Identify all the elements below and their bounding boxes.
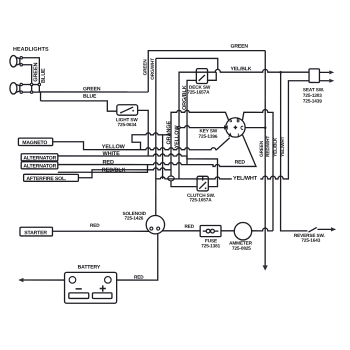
label GREEN vertical right bbox=[259, 140, 264, 157]
wire YEL/BLK rail to seat switch bbox=[215, 69, 309, 72]
wire BLUE run to light switch bbox=[41, 101, 117, 111]
label GREEN top rail bbox=[231, 44, 249, 50]
svg-text:GREEN: GREEN bbox=[259, 140, 264, 157]
wire light switch output to white wire bbox=[138, 110, 149, 156]
svg-text:GREEN: GREEN bbox=[83, 86, 101, 92]
label MAGNETO bbox=[22, 140, 47, 146]
battery box bbox=[65, 272, 117, 303]
label 725-0634 bbox=[118, 122, 137, 127]
label ALTERNATOR 1 bbox=[23, 156, 56, 162]
label YEL/WHT on wire bbox=[232, 174, 261, 182]
wire YELLOW from magneto to key A bbox=[53, 138, 230, 150]
label KEY SW bbox=[200, 128, 218, 133]
label 725-1381 bbox=[201, 243, 220, 248]
headlight lamp 2 bbox=[10, 83, 23, 94]
svg-text:YEL/WHT: YEL/WHT bbox=[233, 176, 258, 182]
wire lamp2 green terminal bbox=[23, 84, 40, 86]
deck switch DECK SW 725-1657A bbox=[196, 69, 207, 84]
label HEADLIGHTS bbox=[13, 47, 49, 53]
label WHITE bbox=[103, 151, 121, 157]
svg-text:YELLOW: YELLOW bbox=[102, 144, 126, 150]
label AMMETER bbox=[229, 241, 253, 246]
svg-text:725-1643: 725-1643 bbox=[301, 238, 320, 243]
seat switch SEAT SW 725-1303 725-1439 bbox=[309, 69, 334, 83]
label ORG/BLK vertical bbox=[182, 85, 188, 110]
wire deck switch left to key M vertical bbox=[179, 72, 216, 179]
svg-text:ORG/BLK: ORG/BLK bbox=[182, 85, 188, 110]
svg-text:GREEN: GREEN bbox=[33, 63, 39, 82]
label RED starter bbox=[90, 223, 100, 228]
battery negative terminal bbox=[69, 277, 76, 284]
alternator box 2 bbox=[21, 162, 58, 169]
label BLUE vertical headlights bbox=[41, 68, 47, 83]
label GREEN vertical left bbox=[142, 59, 147, 76]
svg-text:YELLOW: YELLOW bbox=[174, 125, 180, 149]
svg-text:725-1439: 725-1439 bbox=[303, 99, 322, 104]
label 725-1657A bbox=[187, 90, 210, 95]
wire lamp1 green terminal to vertical bbox=[23, 58, 40, 92]
label BLUE bbox=[83, 94, 97, 100]
label 725-1439 bbox=[303, 99, 322, 104]
ammeter AMMETER 725-0825 bbox=[234, 223, 251, 240]
label REVERSE SW. bbox=[294, 233, 325, 238]
wire YEL/WHT horizontal bbox=[156, 81, 309, 179]
light switch LIGHT SW 725-0634 bbox=[117, 105, 138, 115]
svg-text:HEADLIGHTS: HEADLIGHTS bbox=[13, 47, 49, 53]
svg-text:RED: RED bbox=[103, 160, 114, 166]
junction node M wire bbox=[178, 127, 180, 129]
svg-text:GREEN: GREEN bbox=[142, 59, 147, 76]
svg-text:STARTER: STARTER bbox=[24, 230, 47, 236]
battery plus symbol bbox=[100, 285, 106, 291]
svg-text:WHITE: WHITE bbox=[103, 151, 121, 157]
label AFTERFIRE SOL. bbox=[26, 176, 67, 182]
svg-text:ORANGE: ORANGE bbox=[166, 121, 172, 145]
label YELLOW vertical bbox=[174, 125, 180, 149]
svg-text:ALTERNATOR: ALTERNATOR bbox=[23, 156, 56, 162]
label SOLENOID bbox=[122, 211, 146, 216]
svg-text:ORG/WHT: ORG/WHT bbox=[150, 58, 155, 80]
label GREEN bbox=[83, 86, 101, 92]
label 725-1426 bbox=[124, 216, 143, 221]
wire lamp2 blue terminal bbox=[23, 92, 41, 101]
wire ORG/WHT rail bbox=[156, 58, 218, 69]
svg-text:RED/BLK: RED/BLK bbox=[102, 167, 126, 173]
fuse FUSE 725-1381 bbox=[200, 226, 221, 237]
label RED battery bbox=[134, 275, 144, 280]
label 725-1396 bbox=[199, 134, 218, 139]
svg-text:KEY SW: KEY SW bbox=[200, 128, 218, 133]
svg-text:AFTERFIRE SOL.: AFTERFIRE SOL. bbox=[26, 176, 67, 182]
svg-text:RED: RED bbox=[184, 224, 194, 229]
label SEAT SW. bbox=[303, 87, 324, 92]
wire GREEN horizontal from headlights bbox=[39, 91, 148, 93]
svg-text:RED/WHT: RED/WHT bbox=[265, 136, 270, 157]
afterfire solenoid box bbox=[24, 174, 79, 181]
svg-text:SEAT SW.: SEAT SW. bbox=[303, 87, 324, 92]
label ALTERNATOR 2 bbox=[23, 164, 56, 170]
wire ammeter to red-white vertical bbox=[252, 228, 273, 231]
wire lamp1 blue terminal to vertical bbox=[23, 65, 32, 92]
label DECK SW bbox=[189, 85, 211, 90]
starter solenoid circle bbox=[146, 215, 164, 233]
label YELLOW bbox=[102, 144, 126, 150]
svg-text:725-1396: 725-1396 bbox=[199, 134, 218, 139]
label YEL/BLK bbox=[231, 66, 252, 72]
headlight lamp 1 bbox=[10, 56, 23, 67]
wire ORG/WHT vertical to solenoid bbox=[155, 58, 157, 215]
label RED/WHT vertical bbox=[265, 136, 270, 157]
wire key C to green vertical bbox=[245, 127, 265, 129]
wire battery negative to chassis arrow bbox=[18, 278, 64, 282]
wire connector to clutch switch bbox=[171, 181, 197, 187]
svg-text:BLUE: BLUE bbox=[41, 68, 47, 83]
wire GREEN vertical to ground arrow bbox=[263, 51, 268, 271]
label RED near key bbox=[235, 160, 246, 166]
wire RED/BLK from alternator bbox=[58, 165, 148, 173]
svg-text:BLUE: BLUE bbox=[83, 94, 97, 100]
wire orange vertical to key S bbox=[171, 110, 229, 176]
wire vertical branch x162 bbox=[162, 135, 164, 179]
magneto box bbox=[18, 138, 52, 145]
wire solenoid to fuse RED bbox=[162, 230, 200, 232]
wire afterfire to connector bbox=[78, 168, 171, 178]
wire deck bottom to red wire bbox=[187, 80, 196, 164]
wire WHITE from alternator to clutch switch bbox=[58, 154, 218, 187]
wire starter to solenoid RED bbox=[52, 230, 148, 232]
junction dot YEL/BLK bbox=[279, 71, 282, 74]
battery minus symbol bbox=[76, 288, 82, 290]
connector oval bbox=[168, 176, 174, 181]
alternator box 1 bbox=[21, 154, 58, 161]
junction node lamp wires bbox=[30, 83, 40, 93]
label RED fuse bbox=[184, 224, 194, 229]
label CLUTCH SW bbox=[187, 193, 215, 198]
svg-text:RED: RED bbox=[235, 160, 246, 166]
svg-text:YEL/BLK: YEL/BLK bbox=[273, 137, 278, 157]
battery positive terminal bbox=[105, 277, 112, 284]
label FUSE bbox=[205, 238, 217, 243]
wire battery positive to solenoid RED bbox=[117, 234, 158, 281]
svg-text:RED: RED bbox=[90, 223, 100, 228]
wire key B to red-white vertical bbox=[242, 110, 273, 231]
battery cap left bbox=[69, 293, 89, 299]
wire key M from deck vertical bbox=[179, 126, 226, 128]
svg-text:725-0634: 725-0634 bbox=[118, 122, 137, 127]
label YEL/WHT vertical bbox=[280, 136, 285, 156]
svg-text:YEL/BLK: YEL/BLK bbox=[231, 66, 252, 72]
svg-text:725-1657A: 725-1657A bbox=[189, 197, 212, 202]
label RED bbox=[103, 160, 114, 166]
key switch KEY SW 725-1396 bbox=[225, 118, 246, 137]
wire YEL/BLK vertical to reverse switch bbox=[281, 72, 308, 231]
svg-text:725-1657A: 725-1657A bbox=[187, 90, 210, 95]
junction dot key C green bbox=[264, 126, 267, 129]
battery cap right bbox=[92, 293, 112, 299]
label 725-1303 bbox=[303, 93, 322, 98]
svg-text:725-1303: 725-1303 bbox=[303, 93, 322, 98]
svg-text:RED: RED bbox=[134, 275, 144, 280]
reverse switch blade and arrow bbox=[308, 227, 336, 232]
label RED/BLK bbox=[102, 167, 126, 173]
svg-text:ALTERNATOR: ALTERNATOR bbox=[23, 164, 56, 170]
label 725-0825 bbox=[232, 246, 251, 251]
svg-text:725-0825: 725-0825 bbox=[232, 246, 251, 251]
wire fuse to ammeter bbox=[221, 230, 234, 232]
wire deck switch right jog bbox=[208, 72, 217, 80]
wire RED from alternator to key I bbox=[58, 134, 256, 166]
clutch switch CLUTCH SW 725-1657A bbox=[197, 176, 208, 191]
starter box bbox=[20, 227, 53, 236]
label YEL/BLK vertical bbox=[273, 137, 278, 157]
label ORANGE vertical bbox=[166, 121, 172, 145]
label GREEN vertical headlights bbox=[33, 63, 39, 82]
svg-text:MAGNETO: MAGNETO bbox=[22, 140, 47, 146]
label BATTERY bbox=[78, 264, 101, 270]
svg-text:GREEN: GREEN bbox=[231, 44, 249, 50]
svg-text:725-1426: 725-1426 bbox=[124, 216, 143, 221]
label 725-1643 bbox=[301, 238, 320, 243]
label STARTER bbox=[24, 230, 47, 236]
wire ORANGE from yellow wire to key S bbox=[132, 133, 171, 150]
wire GREEN riser and top rail bbox=[148, 51, 265, 92]
label LIGHT SW bbox=[116, 117, 139, 122]
label 725-1657A clutch bbox=[189, 197, 212, 202]
label ORG/WHT vertical left bbox=[150, 58, 155, 80]
svg-text:725-1381: 725-1381 bbox=[201, 243, 220, 248]
svg-text:BATTERY: BATTERY bbox=[78, 264, 101, 270]
